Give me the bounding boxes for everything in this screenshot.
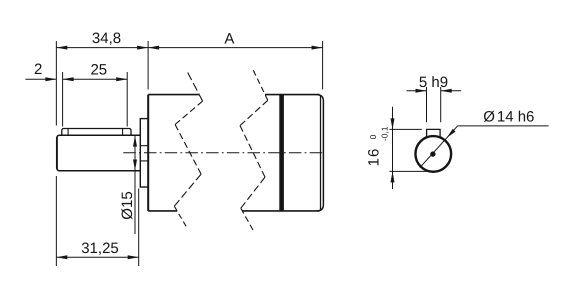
svg-text:16: 16 [366,148,383,167]
svg-text:31,25: 31,25 [81,240,119,257]
svg-text:34,8: 34,8 [92,30,121,47]
svg-text:Ø14 h6: Ø14 h6 [483,108,534,125]
svg-text:0: 0 [368,134,378,139]
svg-text:25: 25 [90,61,107,78]
svg-text:-0,1: -0,1 [380,126,390,141]
svg-text:A: A [224,31,234,48]
svg-text:2: 2 [34,61,42,78]
svg-text:Ø15: Ø15 [119,191,136,219]
svg-text:5 h9: 5 h9 [419,74,448,91]
